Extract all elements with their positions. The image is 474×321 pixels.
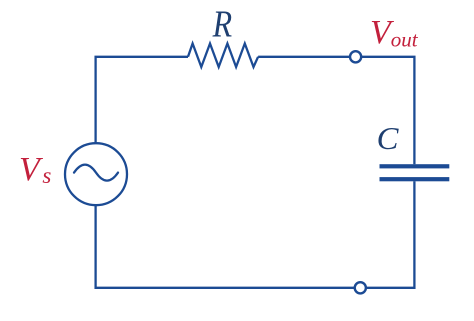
bottom reference open terminal bbox=[355, 282, 366, 293]
voltage source sine symbol bbox=[74, 165, 118, 181]
wire resistor to Vout terminal bbox=[258, 56, 350, 58]
wire Vout terminal to top-right corner, down to capacitor bbox=[361, 57, 414, 164]
capacitor C1 bottom plate bbox=[380, 177, 450, 181]
wire bottom terminal to bottom-left corner, up to Vs bottom lead bbox=[96, 205, 355, 288]
wire top-left (Vs top lead + top wire to resistor) bbox=[96, 57, 188, 143]
svg-text:Vout: Vout bbox=[370, 14, 419, 52]
resistor R1 zigzag bbox=[188, 44, 258, 68]
svg-text:Vs: Vs bbox=[19, 151, 51, 188]
node Vout open terminal bbox=[350, 51, 361, 62]
svg-text:C: C bbox=[377, 120, 399, 156]
wire capacitor bottom lead down to bottom-right corner, to bottom terminal bbox=[366, 181, 415, 287]
capacitor C1 top plate bbox=[380, 164, 450, 168]
voltage source U1 circle bbox=[65, 143, 127, 205]
svg-text:R: R bbox=[212, 4, 232, 46]
